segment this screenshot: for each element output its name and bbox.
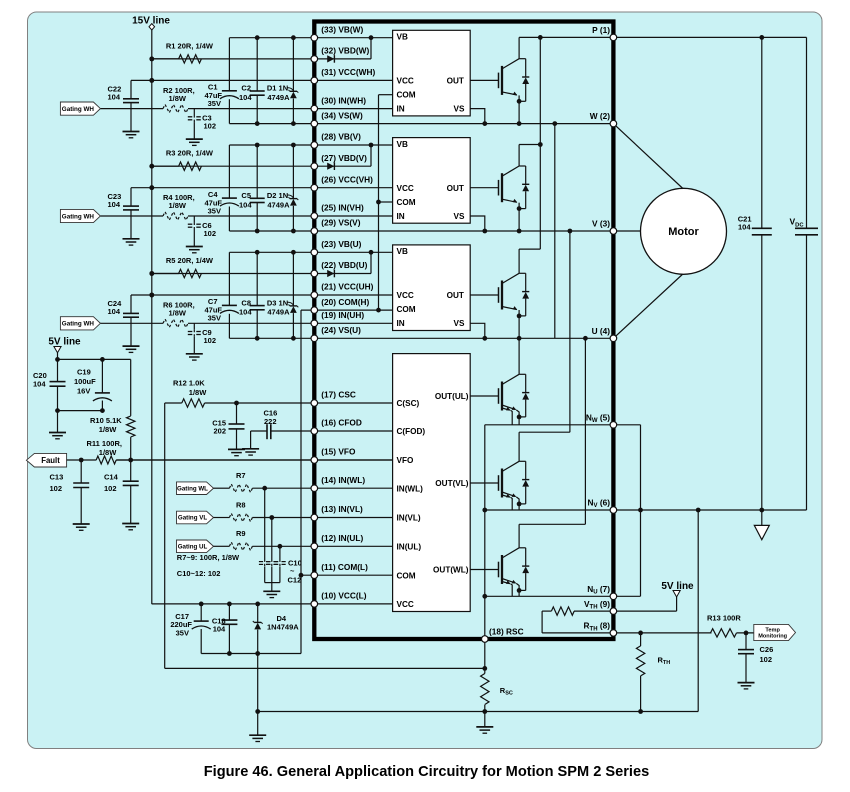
svg-text:IN(WL): IN(WL) xyxy=(397,484,424,493)
svg-text:(30) IN(WH): (30) IN(WH) xyxy=(321,95,366,105)
svg-text:(22) VBD(U): (22) VBD(U) xyxy=(321,260,367,270)
svg-text:1/8W: 1/8W xyxy=(169,309,187,318)
svg-text:(10) VCC(L): (10) VCC(L) xyxy=(321,591,366,601)
svg-text:COM: COM xyxy=(397,571,416,580)
svg-text:IN: IN xyxy=(397,212,405,221)
svg-text:C2: C2 xyxy=(241,84,251,93)
svg-text:(20) COM(H): (20) COM(H) xyxy=(321,297,369,307)
svg-text:D2 1N: D2 1N xyxy=(267,191,288,200)
svg-text:R1 20R, 1/4W: R1 20R, 1/4W xyxy=(166,41,214,50)
svg-text:(13) IN(VL): (13) IN(VL) xyxy=(321,504,363,514)
svg-text:1/8W: 1/8W xyxy=(99,425,117,434)
svg-text:(25) IN(VH): (25) IN(VH) xyxy=(321,203,364,213)
svg-text:W (2): W (2) xyxy=(590,111,611,121)
svg-text:R3 20R, 1/4W: R3 20R, 1/4W xyxy=(166,149,214,158)
svg-text:35V: 35V xyxy=(208,99,221,108)
svg-text:(15) VFO: (15) VFO xyxy=(321,447,356,457)
svg-text:NU (7): NU (7) xyxy=(587,584,610,596)
svg-text:OUT(WL): OUT(WL) xyxy=(433,566,469,575)
svg-text:Gating UL: Gating UL xyxy=(178,544,208,551)
svg-text:222: 222 xyxy=(264,417,277,426)
svg-text:NW (5): NW (5) xyxy=(586,412,610,424)
svg-text:R7: R7 xyxy=(236,471,246,480)
svg-text:104: 104 xyxy=(738,223,751,232)
svg-text:Monitoring: Monitoring xyxy=(758,634,787,640)
svg-text:C13: C13 xyxy=(50,473,64,482)
svg-text:U (4): U (4) xyxy=(592,326,611,336)
svg-text:100uF: 100uF xyxy=(74,377,96,386)
svg-text:5V line: 5V line xyxy=(48,337,81,348)
svg-text:4749A: 4749A xyxy=(267,308,290,317)
svg-text:V (3): V (3) xyxy=(592,219,610,229)
svg-text:OUT: OUT xyxy=(447,77,464,86)
svg-text:NV (6): NV (6) xyxy=(588,498,611,510)
svg-text:(23) VB(U): (23) VB(U) xyxy=(321,239,361,249)
svg-text:COM: COM xyxy=(397,305,416,314)
svg-text:R12 1.0K: R12 1.0K xyxy=(173,378,205,387)
svg-text:(21) VCC(UH): (21) VCC(UH) xyxy=(321,282,373,292)
svg-text:Gating WH: Gating WH xyxy=(62,321,95,328)
svg-text:104: 104 xyxy=(239,200,252,209)
svg-text:Gating VL: Gating VL xyxy=(178,515,207,522)
svg-text:RTH (8): RTH (8) xyxy=(584,621,611,633)
svg-text:(19) IN(UH): (19) IN(UH) xyxy=(321,310,364,320)
svg-text:104: 104 xyxy=(239,308,252,317)
svg-text:Fault: Fault xyxy=(41,456,60,465)
svg-text:R9: R9 xyxy=(236,529,246,538)
svg-text:1/8W: 1/8W xyxy=(169,201,187,210)
svg-text:(27) VBD(V): (27) VBD(V) xyxy=(321,153,367,163)
svg-text:D1 1N: D1 1N xyxy=(267,84,288,93)
svg-text:(28) VB(V): (28) VB(V) xyxy=(321,132,361,142)
svg-text:OUT(VL): OUT(VL) xyxy=(435,479,468,488)
svg-text:(26) VCC(VH): (26) VCC(VH) xyxy=(321,174,373,184)
svg-text:VB: VB xyxy=(397,247,408,256)
svg-text:(14) IN(WL): (14) IN(WL) xyxy=(321,475,365,485)
svg-text:Gating WH: Gating WH xyxy=(62,106,95,113)
svg-text:VFO: VFO xyxy=(397,456,414,465)
svg-text:102: 102 xyxy=(50,484,63,493)
svg-text:1N4749A: 1N4749A xyxy=(267,622,299,631)
svg-text:COM: COM xyxy=(397,198,416,207)
svg-text:102: 102 xyxy=(104,484,117,493)
svg-text:Figure 46. General Application: Figure 46. General Application Circuitry… xyxy=(204,764,649,780)
svg-text:35V: 35V xyxy=(208,314,221,323)
svg-text:VCC: VCC xyxy=(397,184,414,193)
svg-text:4749A: 4749A xyxy=(267,200,290,209)
svg-text:~: ~ xyxy=(290,567,295,576)
svg-text:OUT: OUT xyxy=(447,184,464,193)
svg-text:Temp: Temp xyxy=(765,627,780,633)
svg-text:Gating WH: Gating WH xyxy=(62,213,95,220)
svg-text:C(SC): C(SC) xyxy=(397,399,420,408)
svg-text:104: 104 xyxy=(108,93,121,102)
svg-text:16V: 16V xyxy=(77,386,90,395)
svg-text:(34) VS(W): (34) VS(W) xyxy=(321,110,363,120)
svg-text:C10~12: 102: C10~12: 102 xyxy=(177,569,221,578)
svg-text:Gating WL: Gating WL xyxy=(177,485,208,492)
svg-text:VCC: VCC xyxy=(397,77,414,86)
svg-text:P (1): P (1) xyxy=(592,25,610,35)
svg-text:(31) VCC(WH): (31) VCC(WH) xyxy=(321,67,375,77)
svg-text:104: 104 xyxy=(108,307,121,316)
svg-text:104: 104 xyxy=(33,380,46,389)
svg-text:OUT(UL): OUT(UL) xyxy=(435,392,469,401)
svg-text:R7~9: 100R, 1/8W: R7~9: 100R, 1/8W xyxy=(177,553,240,562)
svg-text:(32) VBD(W): (32) VBD(W) xyxy=(321,46,369,56)
svg-text:(11) COM(L): (11) COM(L) xyxy=(321,562,368,572)
svg-text:VS: VS xyxy=(454,319,465,328)
svg-text:COM: COM xyxy=(397,91,416,100)
svg-text:C5: C5 xyxy=(241,191,251,200)
svg-text:C16: C16 xyxy=(264,408,278,417)
svg-text:Motor: Motor xyxy=(668,226,699,238)
svg-text:102: 102 xyxy=(204,121,217,130)
svg-text:(18) RSC: (18) RSC xyxy=(489,626,524,636)
svg-text:R8: R8 xyxy=(236,500,246,509)
svg-text:(17) CSC: (17) CSC xyxy=(321,390,356,400)
svg-text:C26: C26 xyxy=(760,645,774,654)
svg-text:(12) IN(UL): (12) IN(UL) xyxy=(321,533,363,543)
svg-text:R13 100R: R13 100R xyxy=(707,614,741,623)
svg-text:VCC: VCC xyxy=(397,291,414,300)
svg-text:R5 20R, 1/4W: R5 20R, 1/4W xyxy=(166,256,214,265)
svg-text:102: 102 xyxy=(760,655,773,664)
svg-text:(29) VS(V): (29) VS(V) xyxy=(321,218,360,228)
svg-text:104: 104 xyxy=(213,624,226,633)
svg-text:IN(UL): IN(UL) xyxy=(397,542,422,551)
svg-text:VCC: VCC xyxy=(397,600,414,609)
svg-text:IN: IN xyxy=(397,319,405,328)
svg-text:1/8W: 1/8W xyxy=(169,94,187,103)
svg-text:104: 104 xyxy=(108,200,121,209)
svg-text:5V line: 5V line xyxy=(661,581,694,592)
svg-text:1/8W: 1/8W xyxy=(99,448,117,457)
svg-text:(24) VS(U): (24) VS(U) xyxy=(321,325,361,335)
svg-text:102: 102 xyxy=(204,336,217,345)
svg-text:VS: VS xyxy=(454,104,465,113)
svg-text:202: 202 xyxy=(213,427,226,436)
svg-text:IN(VL): IN(VL) xyxy=(397,514,421,523)
svg-text:C(FOD): C(FOD) xyxy=(397,427,426,436)
svg-text:35V: 35V xyxy=(208,206,221,215)
svg-text:C19: C19 xyxy=(77,368,91,377)
svg-text:1/8W: 1/8W xyxy=(189,388,207,397)
svg-text:VB: VB xyxy=(397,140,408,149)
svg-text:C8: C8 xyxy=(241,298,251,307)
svg-text:15V line: 15V line xyxy=(132,16,170,27)
svg-text:4749A: 4749A xyxy=(267,93,290,102)
svg-text:R10 5.1K: R10 5.1K xyxy=(90,416,122,425)
svg-text:C20: C20 xyxy=(33,371,47,380)
svg-text:D3 1N: D3 1N xyxy=(267,298,288,307)
svg-text:C14: C14 xyxy=(104,473,119,482)
svg-text:102: 102 xyxy=(204,229,217,238)
svg-text:(16) CFOD: (16) CFOD xyxy=(321,418,362,428)
svg-text:(33) VB(W): (33) VB(W) xyxy=(321,24,363,34)
svg-text:35V: 35V xyxy=(176,629,189,638)
svg-text:R11 100R,: R11 100R, xyxy=(87,439,122,448)
svg-text:IN: IN xyxy=(397,104,405,113)
svg-text:VS: VS xyxy=(454,212,465,221)
svg-text:VTH (9): VTH (9) xyxy=(584,599,610,611)
svg-text:OUT: OUT xyxy=(447,291,464,300)
svg-text:104: 104 xyxy=(239,93,252,102)
svg-text:VB: VB xyxy=(397,33,408,42)
